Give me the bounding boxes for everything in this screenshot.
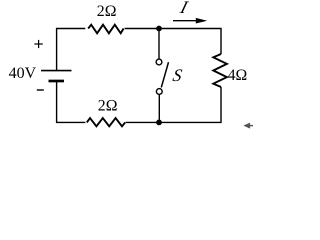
switch S bottom lead wire (158, 95, 160, 123)
svg-text:I: I (177, 0, 190, 17)
svg-text:2Ω: 2Ω (98, 97, 118, 114)
resistor R3 4ohm right zigzag (213, 54, 227, 87)
resistor R2 2ohm bottom zigzag (87, 118, 125, 126)
svg-text:S: S (171, 65, 183, 85)
switch S lower contact circle (156, 89, 162, 95)
svg-text:4Ω: 4Ω (228, 67, 248, 84)
small gray cursor arrow bottom-right (245, 123, 253, 127)
switch S top lead wire (158, 29, 160, 59)
switch S blade (open) (161, 62, 168, 87)
wire top-left segment (57, 29, 86, 71)
svg-text:2Ω: 2Ω (97, 3, 117, 20)
resistor R1 2ohm top zigzag (88, 25, 123, 34)
svg-text:40V: 40V (9, 65, 37, 82)
node junction top (switch tap) (156, 26, 162, 32)
current direction arrow (173, 20, 198, 22)
node junction bottom (switch tap) (156, 120, 162, 126)
battery V1 long positive plate (41, 70, 72, 72)
battery plus sign (34, 40, 42, 48)
battery V1 short negative plate (49, 80, 65, 83)
wire bottom-left segment (57, 81, 86, 122)
battery minus sign (37, 89, 44, 91)
wire top-right segment (125, 29, 221, 55)
wire right-bottom segment (126, 87, 221, 122)
switch S upper contact circle (156, 59, 162, 65)
